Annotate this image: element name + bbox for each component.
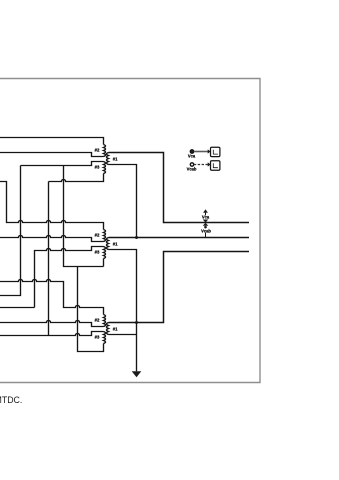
meter plot icon [213, 163, 218, 168]
node Vcab data label circle [190, 163, 193, 166]
voltmeter output arrow up [203, 209, 208, 213]
svg-text:Vca: Vca [202, 215, 210, 220]
wire riser net N3 exit left [0, 166, 21, 296]
svg-text:Vcab: Vcab [187, 167, 197, 172]
wire T1 #3 bottom lead [49, 174, 104, 182]
wire T3 #1 bottom lead [109, 334, 137, 336]
wire T2 #1 top lead bus 2 [109, 237, 250, 239]
transformer T1 winding #2 coil [104, 145, 106, 157]
wire T2 #2 bottom lead [0, 235, 104, 241]
transformer T3 winding #2 coil [104, 315, 106, 327]
voltmeter label Vcab [199, 228, 213, 232]
junction dot voltmeter [204, 226, 207, 229]
wire Vca to meter [194, 151, 208, 153]
transformer T3 winding #1 coil [107, 323, 109, 335]
transformer T2 winding #2 coil [104, 230, 106, 242]
wire riser exit left T2 #3 top [0, 307, 35, 309]
junction dot on bus 2 [135, 236, 138, 239]
svg-text:#3: #3 [95, 164, 100, 169]
svg-text:Vca: Vca [188, 154, 196, 159]
meter box Vcab [211, 161, 220, 170]
wire ground riser [136, 323, 138, 372]
svg-text:#2: #2 [95, 317, 100, 322]
transformer T1 winding #3 coil [104, 162, 106, 174]
caption text MTDC [0, 395, 22, 405]
junction dot T3 #1 top lead [135, 321, 138, 324]
wire T2 #2 top lead via left riser [0, 182, 104, 230]
meter input arrowhead [208, 162, 211, 166]
wire riser T1 #3 bottom to T3 #3 top [48, 182, 50, 336]
transformer T2 winding #1 coil [107, 238, 109, 250]
wire T3 #3 top lead [0, 332, 104, 336]
svg-text:#1: #1 [113, 156, 118, 161]
meter box Vca [211, 147, 220, 156]
svg-text:#3: #3 [95, 334, 100, 339]
wire T3 #1 top lead to bus 3 [109, 252, 250, 323]
meter input arrowhead [208, 149, 211, 153]
wire Vcab to meter [194, 164, 208, 166]
meter plot icon [213, 150, 218, 155]
svg-text:Vcab: Vcab [201, 228, 211, 233]
wire voltmeter to bus 2 [205, 227, 207, 237]
node Vca data label circle [190, 150, 193, 153]
transformer T1 winding #1 coil [107, 153, 109, 165]
transformer T3 winding #3 coil [104, 332, 106, 344]
wire T1 #2 top lead [0, 138, 104, 145]
voltmeter bowtie symbol [203, 220, 209, 226]
wire T1 #2 bottom lead [0, 153, 104, 157]
wire T1 #1 bottom lead down to bus 2 [109, 165, 137, 238]
figure frame border [0, 79, 260, 383]
wire T2 #1 bottom lead down [109, 250, 137, 323]
svg-text:#2: #2 [95, 232, 100, 237]
ground arrow [132, 371, 142, 377]
svg-text:#1: #1 [113, 326, 118, 331]
transformer T2 winding #3 coil [104, 247, 106, 259]
wire T2 #3 bottom tie line [64, 166, 104, 267]
wire T3 #2 top lead via riser with hops [0, 279, 104, 314]
svg-text:#2: #2 [95, 147, 100, 152]
wire T3 #3 bottom lead up-tie [78, 267, 104, 352]
wire T2 #3 top lead with riser down [35, 247, 104, 308]
svg-text:#1: #1 [113, 241, 118, 246]
wire T3 #2 bottom lead [0, 320, 104, 326]
wire T1 #1 top lead to bus 1 [109, 153, 250, 223]
svg-text:#3: #3 [95, 249, 100, 254]
wire T1 #3 top lead [21, 162, 104, 166]
